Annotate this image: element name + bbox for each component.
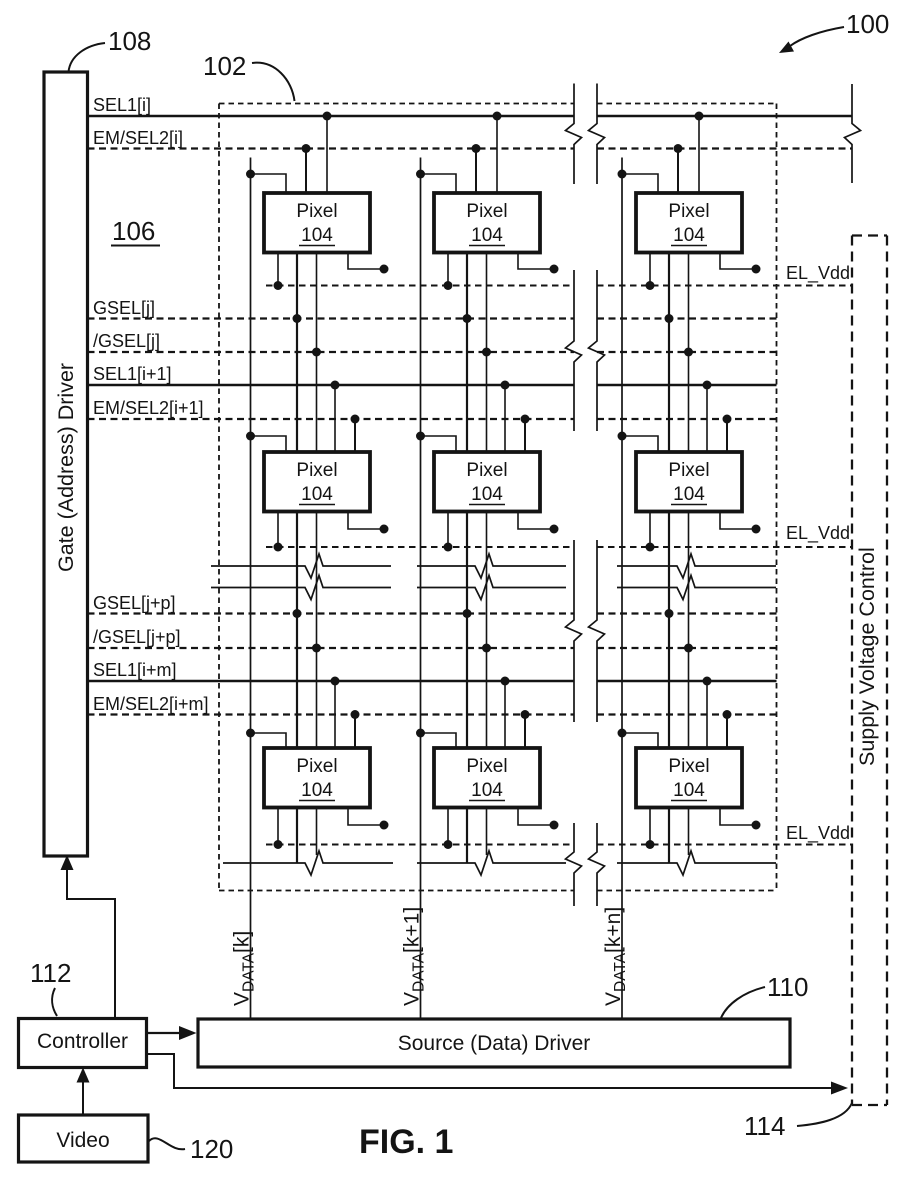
svg-text:SEL1[i+m]: SEL1[i+m] xyxy=(93,660,177,680)
wire SEL1[i+m] tap r3c1 xyxy=(331,677,340,749)
svg-text:Pixel: Pixel xyxy=(466,756,507,777)
label 114 with leader xyxy=(744,1103,852,1141)
wire row-break line lower (array continuation) xyxy=(211,576,776,600)
wire /GSEL[j+p] row line xyxy=(88,647,777,649)
wire /GSEL[j+p] link r2c3 to r3c3 xyxy=(684,512,693,749)
label EM/SEL2[i+m] xyxy=(93,694,209,714)
wire SEL1[i+1] tap r2c2 xyxy=(501,381,510,453)
pixel 104 row 2 column 3 box xyxy=(636,452,742,512)
label GSEL[j] xyxy=(93,298,155,318)
wire EM/SEL2[i+m] row line xyxy=(88,713,777,715)
wire EM/SEL2[i+m] tap r3c1 xyxy=(351,710,360,748)
svg-text:Source (Data) Driver: Source (Data) Driver xyxy=(398,1032,591,1055)
wire GSEL[j+p] link r2c2 to r3c2 xyxy=(463,512,472,749)
label VDATA[k] column 1 xyxy=(231,931,258,1006)
label GSEL[j+p] xyxy=(93,593,176,613)
svg-text:EM/SEL2[i]: EM/SEL2[i] xyxy=(93,128,183,148)
svg-text:Gate (Address) Driver: Gate (Address) Driver xyxy=(54,363,78,572)
wire EL_Vdd stub r3c3 xyxy=(646,808,655,850)
svg-text:110: 110 xyxy=(767,972,808,1002)
svg-text:EM/SEL2[i+1]: EM/SEL2[i+1] xyxy=(93,398,204,418)
wire VDATA column 2 vertical data line xyxy=(420,158,422,1020)
pixel 104 row 2 column 1 box xyxy=(264,452,370,512)
wire /GSEL[j] link r1c3 to r2c3 xyxy=(684,253,693,453)
wire /GSEL[j] row line xyxy=(88,351,777,353)
svg-text:104: 104 xyxy=(301,225,333,246)
wire data stub to pixel r2c2 xyxy=(416,432,456,453)
wire data stub to pixel r3c1 xyxy=(246,729,286,749)
gate address driver 108 box xyxy=(44,72,88,856)
wire VDATA column 3 vertical data line xyxy=(621,158,623,1020)
net label EL_Vdd row 2 xyxy=(786,523,850,544)
label 100 with arrow xyxy=(779,9,889,53)
label 110 with leader xyxy=(721,972,808,1018)
wire controller to gate driver with arrowhead xyxy=(61,855,116,1018)
wire GSEL[j] link r1c1 to r2c1 xyxy=(293,253,302,453)
wire pixel right terminal r1c2 xyxy=(518,253,559,274)
label VDATA[k+n] column 3 xyxy=(602,907,629,1006)
wire video to controller arrow xyxy=(77,1068,90,1116)
wire EM/SEL2[i+1] row line xyxy=(88,418,777,420)
label /GSEL[j] xyxy=(93,331,160,351)
svg-text:104: 104 xyxy=(471,225,503,246)
wire EM/SEL2[i+m] tap r3c2 xyxy=(521,710,530,748)
wire data stub to pixel r1c3 xyxy=(618,170,659,194)
wire data stub to pixel r3c2 xyxy=(416,729,456,749)
pixel 104 row 1 column 2 box xyxy=(434,193,540,253)
pixel 104 row 1 column 3 box xyxy=(636,193,742,253)
wire EL_Vdd stub r1c3 xyxy=(646,253,655,291)
wire pixel right terminal r2c2 xyxy=(518,512,559,534)
svg-text:120: 120 xyxy=(190,1134,233,1164)
wire /GSEL[j+p] link r2c2 to r3c2 xyxy=(482,512,491,749)
svg-text:104: 104 xyxy=(471,484,503,505)
label 112 with leader xyxy=(30,958,71,1016)
pixel 104 row 2 column 2 box xyxy=(434,452,540,512)
net label EL_Vdd row 1 xyxy=(786,263,850,284)
svg-text:/GSEL[j]: /GSEL[j] xyxy=(93,331,160,351)
wire column-break bars top (between columns) xyxy=(566,84,605,185)
wire SEL1[i+1] tap r2c3 xyxy=(703,381,712,453)
svg-text:114: 114 xyxy=(744,1111,785,1141)
wire column-break bars bottom (between columns) xyxy=(566,823,605,906)
svg-text:Supply Voltage Control: Supply Voltage Control xyxy=(855,547,879,766)
wire column-break bars row1-2 (between columns) xyxy=(566,270,605,431)
wire SEL1[i+1] row line xyxy=(88,384,777,387)
wire GSEL[j+p] link r2c3 to r3c3 xyxy=(665,512,674,749)
label EM/SEL2[i] xyxy=(93,128,183,148)
wire pixel right terminal r1c1 xyxy=(348,253,389,274)
label SEL1[i] xyxy=(93,95,151,115)
label VDATA[k+1] column 2 xyxy=(401,907,428,1006)
wire GSEL[j] link r1c3 to r2c3 xyxy=(665,253,674,453)
wire /GSEL[j] link r1c1 to r2c1 xyxy=(312,253,321,453)
wire SEL1[i+m] row line xyxy=(88,680,777,683)
wire EL_Vdd stub r1c2 xyxy=(444,253,453,291)
node: pixel array 102 dashed border xyxy=(219,104,777,891)
wire GSEL[j] row line xyxy=(88,317,777,319)
wire EM/SEL2[i] tap r1c1 xyxy=(302,144,311,193)
svg-text:104: 104 xyxy=(673,225,705,246)
svg-text:GSEL[j+p]: GSEL[j+p] xyxy=(93,593,176,613)
wire VDATA column 1 vertical data line xyxy=(250,158,252,1020)
svg-text:Controller: Controller xyxy=(37,1030,128,1053)
wire EM/SEL2[i+1] tap r2c3 xyxy=(723,415,732,453)
source data driver 110 box xyxy=(198,1019,790,1067)
wire data stub to pixel r2c1 xyxy=(246,432,286,453)
wire EM/SEL2[i+1] tap r2c1 xyxy=(351,415,360,453)
net EL_Vdd row 1 line xyxy=(266,285,852,287)
wire pixel right terminal r3c1 xyxy=(348,808,389,830)
wire pixel right terminal r2c1 xyxy=(348,512,389,534)
net EL_Vdd row 3 line xyxy=(266,844,852,846)
wire SEL1[i] tap r1c2 xyxy=(493,112,502,194)
wire EM/SEL2[i] tap r1c2 xyxy=(472,144,481,193)
pixel 104 row 3 column 3 box xyxy=(636,748,742,808)
svg-text:106: 106 xyxy=(112,216,155,246)
label SEL1[i+1] xyxy=(93,364,172,384)
svg-text:Pixel: Pixel xyxy=(668,756,709,777)
wire r3c2 lower continuation stubs xyxy=(467,808,487,864)
wire EL_Vdd stub r1c1 xyxy=(274,253,283,291)
wire data stub to pixel r3c3 xyxy=(618,729,659,749)
svg-text:EL_Vdd: EL_Vdd xyxy=(786,823,850,844)
wire controller to supply voltage control arrow xyxy=(147,1054,848,1095)
wire bottom-break line (array continuation) xyxy=(223,851,776,875)
svg-text:104: 104 xyxy=(301,780,333,801)
label FIG. 1 xyxy=(359,1123,453,1161)
svg-text:104: 104 xyxy=(673,780,705,801)
svg-text:EL_Vdd: EL_Vdd xyxy=(786,263,850,284)
svg-text:/GSEL[j+p]: /GSEL[j+p] xyxy=(93,627,181,647)
wire EM/SEL2[i] row line xyxy=(88,147,853,149)
wire SEL1[i+m] tap r3c2 xyxy=(501,677,510,749)
supply voltage control 114 dashed box xyxy=(852,236,887,1106)
svg-text:Pixel: Pixel xyxy=(466,460,507,481)
wire data stub to pixel r1c1 xyxy=(246,170,286,194)
wire /GSEL[j+p] link r2c1 to r3c1 xyxy=(312,512,321,749)
wire right-edge break bar for SEL1[i] and EM/SEL2[i] xyxy=(845,84,861,183)
label 108 with leader xyxy=(69,26,152,72)
svg-text:GSEL[j]: GSEL[j] xyxy=(93,298,155,318)
svg-text:Pixel: Pixel xyxy=(296,756,337,777)
wire /GSEL[j] link r1c2 to r2c2 xyxy=(482,253,491,453)
label SEL1[i+m] xyxy=(93,660,177,680)
wire r3c1 lower continuation stubs xyxy=(297,808,317,864)
svg-text:104: 104 xyxy=(301,484,333,505)
svg-text:Pixel: Pixel xyxy=(466,201,507,222)
label 102 with leader xyxy=(203,51,295,101)
net EL_Vdd row 2 line xyxy=(266,546,852,548)
wire EM/SEL2[i+1] tap r2c2 xyxy=(521,415,530,453)
wire pixel right terminal r1c3 xyxy=(720,253,761,274)
pixel 104 row 1 column 1 box xyxy=(264,193,370,253)
wire EL_Vdd stub r2c2 xyxy=(444,512,453,552)
svg-text:104: 104 xyxy=(673,484,705,505)
controller 112 box xyxy=(19,1019,147,1068)
svg-text:SEL1[i+1]: SEL1[i+1] xyxy=(93,364,172,384)
net label EL_Vdd row 3 xyxy=(786,823,850,844)
wire EL_Vdd stub r3c1 xyxy=(274,808,283,850)
wire SEL1[i] tap r1c3 xyxy=(695,112,704,194)
wire column-break bars row2-3 (between columns) xyxy=(566,540,605,722)
wire GSEL[j+p] row line xyxy=(88,612,777,614)
wire pixel right terminal r3c3 xyxy=(720,808,761,830)
wire EM/SEL2[i+m] tap r3c3 xyxy=(723,710,732,748)
svg-text:112: 112 xyxy=(30,958,71,988)
node 106 (row line group) label xyxy=(111,216,160,246)
label /GSEL[j+p] xyxy=(93,627,181,647)
wire EL_Vdd stub r3c2 xyxy=(444,808,453,850)
wire SEL1[i+m] tap r3c3 xyxy=(703,677,712,749)
label EM/SEL2[i+1] xyxy=(93,398,204,418)
wire SEL1[i] tap r1c1 xyxy=(323,112,332,194)
wire pixel right terminal r2c3 xyxy=(720,512,761,534)
pixel 104 row 3 column 1 box xyxy=(264,748,370,808)
svg-text:Pixel: Pixel xyxy=(668,201,709,222)
svg-text:Pixel: Pixel xyxy=(668,460,709,481)
svg-text:108: 108 xyxy=(108,26,151,56)
svg-text:Pixel: Pixel xyxy=(296,460,337,481)
wire GSEL[j] link r1c2 to r2c2 xyxy=(463,253,472,453)
wire data stub to pixel r2c3 xyxy=(618,432,659,453)
svg-text:Video: Video xyxy=(56,1129,109,1152)
svg-text:100: 100 xyxy=(846,9,889,39)
wire pixel right terminal r3c2 xyxy=(518,808,559,830)
wire EM/SEL2[i] tap r1c3 xyxy=(674,144,683,193)
label 120 with leader xyxy=(149,1134,233,1164)
svg-text:102: 102 xyxy=(203,51,246,81)
wire EL_Vdd stub r2c1 xyxy=(274,512,283,552)
pixel 104 row 3 column 2 box xyxy=(434,748,540,808)
svg-text:FIG. 1: FIG. 1 xyxy=(359,1123,453,1161)
wire data stub to pixel r1c2 xyxy=(416,170,456,194)
wire EL_Vdd stub r2c3 xyxy=(646,512,655,552)
svg-text:SEL1[i]: SEL1[i] xyxy=(93,95,151,115)
video 120 box xyxy=(19,1115,149,1162)
svg-text:Pixel: Pixel xyxy=(296,201,337,222)
svg-text:EM/SEL2[i+m]: EM/SEL2[i+m] xyxy=(93,694,209,714)
svg-text:EL_Vdd: EL_Vdd xyxy=(786,523,850,544)
wire controller to source driver arrow xyxy=(147,1026,197,1040)
svg-text:104: 104 xyxy=(471,780,503,801)
wire SEL1[i] row line xyxy=(88,115,853,118)
wire SEL1[i+1] tap r2c1 xyxy=(331,381,340,453)
wire row-break line upper (array continuation) xyxy=(211,554,776,578)
wire r3c3 lower continuation stubs xyxy=(669,808,689,864)
wire GSEL[j+p] link r2c1 to r3c1 xyxy=(293,512,302,749)
